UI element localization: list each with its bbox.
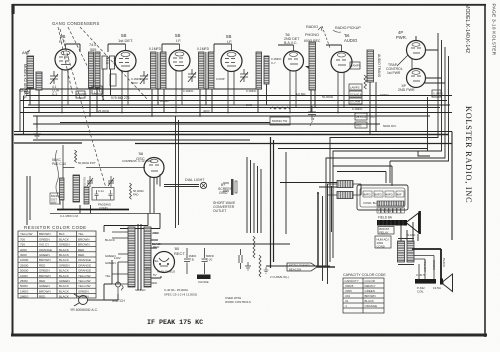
bus wire B+ line y89 [20, 88, 262, 90]
wire corner top-right supply [418, 151, 430, 156]
svg-text:COIL: COIL [417, 290, 424, 294]
svg-text:PHONO: PHONO [305, 33, 319, 37]
svg-text:25,000Ω: 25,000Ω [98, 109, 110, 113]
B plus line from rectifier [152, 243, 290, 245]
wire stage drop if1 [152, 89, 164, 116]
short wave converter outlet J1 [223, 179, 237, 195]
svg-text:SHIELD: SHIELD [135, 288, 145, 292]
svg-text:400V: 400V [203, 109, 210, 113]
svg-text:GREEN: GREEN [59, 263, 70, 267]
phono pickup [333, 26, 361, 32]
svg-text:MODEL.K-140,K-142: MODEL.K-140,K-142 [464, 4, 470, 53]
metal tuning beacon pointer [270, 263, 335, 279]
wire beacon riser [317, 193, 319, 267]
oscillator coil L3b [73, 175, 87, 202]
svg-text:50000: 50000 [20, 269, 29, 273]
tube V7 4P PWR [396, 30, 426, 70]
svg-text:100M: 100M [20, 274, 28, 278]
wire choke connections [280, 183, 361, 196]
svg-text:7 7 0 2 1 8: 7 7 0 2 1 8 [378, 209, 394, 213]
svg-text:PAD: PAD [133, 192, 139, 196]
wire risers to output area [323, 184, 332, 284]
svg-text:RED/GY: RED/GY [365, 284, 376, 288]
speaker terminal strip [377, 208, 404, 213]
field coil FIELD 8A [377, 216, 407, 226]
svg-text:OSC: OSC [136, 156, 145, 161]
svg-text:B-18Ω: B-18Ω [407, 233, 416, 237]
svg-text:GREEN: GREEN [39, 237, 50, 241]
short wave outlet label [213, 201, 236, 213]
svg-text:19.5Ω: 19.5Ω [433, 286, 442, 290]
tube V9 56 OSC [136, 151, 164, 178]
svg-text:8MFD: 8MFD [363, 193, 371, 197]
wire nested bend 7 [337, 172, 386, 184]
volume control R10 [305, 42, 316, 90]
wire nested bend 5 [427, 97, 429, 151]
used with note [225, 296, 251, 304]
resistor cluster ground [264, 267, 269, 273]
svg-text:25000: 25000 [20, 263, 29, 267]
svg-text:BLACK: BLACK [59, 284, 69, 288]
wire nested bend 4 [390, 56, 449, 161]
svg-text:R.F.: R.F. [59, 39, 66, 44]
bus wire AVC line y95.5 [26, 95, 452, 97]
svg-text:BROWN: BROWN [39, 258, 51, 262]
field speaker cone [406, 211, 421, 237]
tube V1 5B RF [55, 34, 76, 112]
svg-text:GREEN: GREEN [105, 261, 116, 265]
svg-text:0.1MFD: 0.1MFD [352, 107, 362, 111]
svg-text:OUTLET: OUTLET [213, 209, 226, 213]
bus wire heater return y112.5 [20, 112, 452, 114]
transformer tap labels right [114, 231, 162, 292]
svg-text:BLACK: BLACK [105, 238, 115, 242]
svg-text:PAD C-10: PAD C-10 [52, 162, 66, 166]
svg-text:.0005: .0005 [345, 289, 353, 293]
wire nested bend 1 [330, 33, 438, 262]
svg-text:SPEC C5-1-2 HI 12,500Ω: SPEC C5-1-2 HI 12,500Ω [164, 293, 198, 297]
svg-text:ORANGE: ORANGE [78, 263, 91, 267]
bus wire y140 left [33, 139, 250, 141]
capacitor C10 8MFD [202, 248, 214, 274]
svg-text:1MEG: 1MEG [20, 289, 29, 293]
tube V8 4P 2nd PWR [398, 69, 426, 93]
svg-text:C-11: C-11 [98, 189, 104, 193]
oscillator coil L3a [60, 178, 65, 200]
tuning drive flexible cable [56, 150, 61, 205]
svg-text:COLOR: COLOR [365, 279, 375, 283]
speaker wires [412, 249, 441, 279]
wire stage drop rf coil [90, 69, 111, 116]
svg-text:SWITCH: SWITCH [112, 299, 125, 303]
bus wire cathode line y105 [28, 104, 450, 106]
resistor color code table text [20, 232, 91, 299]
scattered value labels top band [98, 57, 389, 113]
svg-text:BLACK: BLACK [59, 295, 69, 299]
resistor color code table [18, 225, 96, 298]
tuning condenser VC2 [140, 71, 148, 84]
oscillator grid resistor R12 [75, 150, 96, 165]
bus wire screen line y100.5 [20, 100, 447, 102]
audio interstage transformer T4 [367, 50, 381, 82]
svg-text:RED: RED [78, 248, 85, 252]
svg-text:C.1: C.1 [52, 92, 57, 96]
svg-text:SCALE A: SCALE A [350, 93, 362, 97]
capacity table text [345, 279, 378, 308]
output transformer T6 [398, 239, 415, 265]
svg-text:BLACK: BLACK [59, 269, 69, 273]
wire osc cathode drop [149, 176, 151, 213]
svg-text:YELLOW: YELLOW [78, 284, 91, 288]
svg-text:1.5: 1.5 [94, 91, 98, 95]
wire osc drops [80, 178, 160, 229]
svg-text:ORANGE: ORANGE [78, 258, 91, 262]
osc trimmer VC5 [108, 176, 114, 187]
svg-text:RADIO PICKUP: RADIO PICKUP [335, 26, 361, 30]
svg-text:5V: 5V [153, 273, 157, 277]
bus wire ground bus y116 [33, 115, 430, 117]
transformer lead labels [105, 231, 160, 278]
misc comps mid [308, 106, 316, 126]
svg-text:0.1MFD: 0.1MFD [246, 89, 256, 93]
svg-text:LAMPS: LAMPS [351, 64, 361, 68]
svg-text:RECT.: RECT. [174, 251, 186, 256]
dial light DL [185, 178, 207, 189]
svg-text:IF PEAK 175 KC: IF PEAK 175 KC [147, 319, 203, 327]
wire nested bend 2 [333, 40, 442, 258]
svg-text:YELLOW: YELLOW [78, 279, 91, 283]
boost relay box [378, 227, 394, 235]
svg-text:KOLSTER RADIO, INC: KOLSTER RADIO, INC [464, 106, 473, 203]
svg-text:ORANGE: ORANGE [39, 248, 52, 252]
misc box 500M [270, 117, 290, 125]
svg-text:1st PWR: 1st PWR [387, 71, 401, 75]
grid resistor box R4 [110, 74, 116, 86]
oscillator bottom thin line [50, 213, 160, 215]
svg-text:BROWN: BROWN [39, 274, 51, 278]
svg-text:0.1MFD: 0.1MFD [149, 47, 162, 51]
AC plug P1 [70, 294, 104, 312]
power transformer primary winding [128, 227, 135, 287]
svg-text:RADIO: RADIO [306, 25, 318, 29]
svg-text:GREEN: GREEN [39, 269, 50, 273]
svg-text:B.A.V.C.: B.A.V.C. [284, 41, 297, 45]
capacitor C1 0.1MFD [76, 91, 86, 98]
band switch box [50, 193, 60, 204]
misc resistor mid zigzag [270, 107, 290, 109]
svg-text:YEL: YEL [105, 274, 111, 278]
voice coil bar [415, 279, 436, 284]
svg-text:0.1MFD: 0.1MFD [197, 47, 210, 51]
svg-text:CHOKE: CHOKE [198, 280, 209, 284]
svg-text:1st DET.: 1st DET. [118, 38, 133, 43]
svg-text:500Ω DIV.: 500Ω DIV. [383, 124, 397, 128]
svg-text:GRID: GRID [219, 191, 228, 195]
grid trimmer C4 [240, 69, 248, 82]
svg-text:BLACK: BLACK [59, 289, 69, 293]
svg-text:WAV: WAV [51, 200, 57, 204]
wire plug to switch [104, 260, 118, 300]
svg-text:BLACK: BLACK [442, 258, 446, 267]
svg-text:RED: RED [39, 279, 46, 283]
tube V2 5B 1st DET [115, 33, 136, 112]
svg-text:RELAY: RELAY [380, 230, 389, 234]
on-off switch S2 [112, 278, 125, 303]
svg-text:2 CURVE W(-): 2 CURVE W(-) [270, 275, 289, 279]
svg-text:555: 555 [90, 48, 96, 52]
transformer primary leads [104, 232, 128, 284]
power transformer secondary winding [144, 227, 151, 287]
svg-text:0.5MΩ: 0.5MΩ [380, 93, 389, 97]
capacitor C9 1MFD [184, 248, 196, 274]
gang condenser dashed link 4 (to padder) [60, 29, 106, 188]
svg-text:GREEN: GREEN [365, 289, 375, 293]
padding condenser box [92, 188, 114, 201]
svg-text:I.F.: I.F. [227, 39, 232, 44]
padder label [52, 158, 66, 166]
svg-text:RED: RED [151, 281, 157, 285]
svg-text:BAND: BAND [51, 194, 58, 198]
wire feed y148 [278, 148, 428, 150]
resistor R1 47.5 [102, 56, 109, 69]
wire ground tie bottom maze [266, 265, 330, 267]
trap control label [386, 63, 403, 75]
svg-text:LAMPS: LAMPS [350, 86, 360, 90]
wire bundle right-centre drop [271, 137, 274, 268]
svg-text:0.1MFD: 0.1MFD [77, 92, 87, 96]
RF coupling coil L2 [89, 43, 101, 88]
wire stage drop audio [311, 82, 376, 135]
svg-text:BEACON: BEACON [289, 268, 301, 272]
svg-text:GREEN: GREEN [59, 279, 70, 283]
svg-text:500M: 500M [20, 284, 28, 288]
svg-text:BLK: BLK [59, 232, 65, 236]
resistor R13 50000 PAD [130, 183, 144, 199]
svg-text:700: 700 [20, 237, 25, 241]
speaker leads labels [423, 258, 446, 272]
radio-phono switch S1 [304, 25, 330, 48]
tuning condenser VC1 [50, 71, 58, 84]
wire osc to dial light [157, 174, 199, 187]
ground symbol left margin [33, 128, 41, 138]
svg-text:0.1MFD: 0.1MFD [433, 92, 443, 96]
padding cond label [98, 203, 112, 210]
bus wire main B- y134.5 [14, 134, 449, 136]
svg-text:STORM: STORM [350, 100, 361, 104]
svg-text:50,000Ω: 50,000Ω [322, 95, 334, 99]
ground terminal GND [19, 88, 30, 95]
wire nested bend 3 [326, 47, 445, 266]
svg-text:1/2 MΩ: 1/2 MΩ [296, 92, 306, 96]
speaker wire secondary [414, 256, 434, 280]
svg-text:YELLOW: YELLOW [78, 274, 91, 278]
svg-text:47Ω: 47Ω [356, 124, 362, 128]
svg-text:CAPACITY: CAPACITY [345, 279, 359, 283]
antenna terminal ANT [22, 50, 31, 55]
gang condenser dashed link 2 [68, 27, 104, 100]
svg-text:FIELD 8A: FIELD 8A [378, 216, 393, 220]
svg-text:RED: RED [78, 253, 85, 257]
antenna coil L1 [23, 56, 42, 99]
svg-text:RED: RED [39, 295, 46, 299]
svg-text:5?5 MΩ 275: 5?5 MΩ 275 [111, 96, 130, 100]
svg-text:50,000Ω POT: 50,000Ω POT [78, 161, 96, 165]
osc trimmer VC4 [87, 176, 93, 187]
svg-text:COND: COND [377, 244, 385, 248]
electrolytic condenser block [357, 185, 408, 210]
wire bundle centre drop [247, 157, 261, 233]
wire vertical drop x175 [175, 116, 177, 228]
wire output tubes to right [424, 50, 445, 83]
svg-text:P.C.: P.C. [370, 115, 376, 119]
svg-text:GREEN: GREEN [78, 289, 89, 293]
resistor R2 47.5 [110, 56, 117, 69]
IF transformer T3 [256, 52, 269, 89]
IF transformer T2 [197, 47, 214, 89]
wire bend left-centre [285, 152, 287, 234]
ground symbol tone [245, 262, 251, 270]
svg-text:PWR.: PWR. [396, 35, 407, 40]
svg-text:2.5V: 2.5V [152, 231, 158, 235]
capacity color code table [343, 273, 386, 313]
svg-text:C-7: C-7 [271, 61, 276, 65]
svg-text:BLACK: BLACK [59, 237, 69, 241]
svg-text:ALAN SHIELD: ALAN SHIELD [157, 270, 175, 274]
tone resistor R15 [259, 255, 261, 277]
svg-text:8MFD: 8MFD [374, 193, 382, 197]
bus wire heater line y107.5 [24, 107, 440, 109]
svg-text:BROWN: BROWN [78, 237, 90, 241]
svg-text:ORANGE: ORANGE [365, 304, 378, 308]
tube V4 5B IF2 [221, 34, 242, 112]
svg-text:10000: 10000 [20, 258, 29, 262]
wire grid caps top [66, 36, 417, 52]
svg-text:C-40 60~ 25,000Ω: C-40 60~ 25,000Ω [164, 288, 189, 292]
power transformer T5 core [138, 224, 141, 290]
svg-text:VIO CY: VIO CY [39, 243, 49, 247]
condenser block mounting strip [377, 201, 404, 206]
svg-text:47.5: 47.5 [105, 58, 109, 65]
svg-text:2000: 2000 [20, 248, 27, 252]
svg-text:40Ω: 40Ω [145, 266, 151, 270]
svg-text:COMP: COMP [216, 77, 225, 81]
svg-text:WORK CONTROLS: WORK CONTROLS [225, 300, 251, 304]
svg-text:BROWN: BROWN [365, 294, 376, 298]
wire supply horizontals [104, 226, 161, 279]
bus wire B+ feed y124 [33, 123, 380, 125]
wire bus y122.5 [60, 122, 270, 124]
svg-text:GREEN: GREEN [39, 284, 50, 288]
filter choke CH2 [327, 181, 361, 188]
svg-text:500MΩ TW: 500MΩ TW [272, 119, 287, 123]
tube V6 56 AUDIO [331, 33, 358, 112]
tube V10 80 RECT [154, 246, 186, 274]
svg-text:DIAL LIGHT: DIAL LIGHT [185, 178, 205, 182]
svg-text:BLACK: BLACK [59, 253, 69, 257]
tone capacitor C11 [239, 249, 242, 269]
oscillator section bottom bus [57, 209, 129, 211]
svg-text:RESISTOR COLOR CODE: RESISTOR COLOR CODE [24, 225, 87, 230]
tone resistor R14 [253, 236, 255, 258]
grid comp trimmer C3 [188, 69, 196, 82]
svg-text:C-40.5: C-40.5 [416, 273, 425, 277]
wire vertical drop x178.5 [178, 120, 180, 225]
note under rectifier [164, 288, 198, 297]
bus wire thick left segment y143 [14, 142, 82, 144]
box stack lamps/scale [349, 84, 362, 104]
coupling box C6 [350, 62, 361, 69]
svg-text:28.5 FIL: 28.5 FIL [356, 115, 367, 119]
wire thick feed y143.5 [135, 143, 452, 145]
svg-text:1/2MΩ: 1/2MΩ [160, 99, 169, 103]
wire table feeds [27, 176, 30, 225]
gang condenser dashed link 3 [80, 27, 148, 100]
wire stage drop if2 [200, 89, 212, 116]
svg-text:110V: 110V [114, 256, 121, 260]
svg-text:CAPACITY COLOR CODE: CAPACITY COLOR CODE [343, 273, 386, 277]
gang condenser dashed link 1 [58, 27, 73, 96]
svg-text:YR 400/600Ω A.C.: YR 400/600Ω A.C. [70, 308, 98, 312]
tube V3 5B IF [169, 33, 190, 112]
wire bend4 tail [389, 161, 391, 183]
capacitor C2 comp [92, 86, 102, 95]
svg-text:BROWN: BROWN [78, 243, 90, 247]
misc right small boxes [355, 113, 397, 128]
filter choke CH3 [327, 192, 361, 199]
wire speaker field drops [401, 222, 418, 241]
svg-text:GREEN: GREEN [39, 253, 50, 257]
svg-text:BLACK: BLACK [59, 248, 69, 252]
svg-text:ORANGE: ORANGE [78, 269, 91, 273]
svg-text:.1: .1 [345, 304, 348, 308]
svg-text:BROWN: BROWN [39, 289, 51, 293]
svg-text:.00025: .00025 [345, 284, 354, 288]
svg-text:BLACK: BLACK [365, 299, 375, 303]
svg-text:YELLOW: YELLOW [20, 232, 33, 236]
svg-text:I.F.: I.F. [176, 38, 181, 43]
svg-text:2MEG: 2MEG [20, 295, 29, 299]
wire stage drop if3 [258, 84, 267, 113]
tube V5 56 2nd DET [284, 33, 304, 112]
oscillator coil L3c [84, 187, 89, 204]
svg-text:C-20: C-20 [206, 258, 213, 262]
filter choke CH1 [197, 275, 211, 285]
capacitor C8 0.1MFD [432, 90, 443, 97]
svg-text:2ND PWR: 2ND PWR [398, 88, 415, 92]
IF transformer T1 [149, 47, 166, 89]
svg-text:RED: RED [39, 263, 46, 267]
svg-text:C-1 MFD C.M.: C-1 MFD C.M. [60, 214, 79, 218]
junction dots [61, 112, 339, 194]
svg-text:3000: 3000 [20, 253, 27, 257]
bus wire main B+ y131.5 [14, 132, 452, 241]
svg-text:YEL: YEL [78, 232, 84, 236]
svg-text:400V: 400V [131, 81, 138, 85]
compensating label [122, 159, 153, 163]
svg-text:74.5: 74.5 [89, 43, 96, 47]
B+ screen grid label [218, 183, 233, 195]
bias resistor R11 [364, 75, 367, 89]
svg-text:GREEN: GREEN [59, 243, 70, 247]
oscillator vertical feed [63, 145, 145, 210]
svg-text:750: 750 [20, 243, 25, 247]
svg-text:T.B.: T.B. [190, 258, 195, 262]
svg-text:2MΩ: 2MΩ [246, 103, 253, 107]
svg-text:GANG CONDENSERS: GANG CONDENSERS [52, 21, 100, 26]
svg-text:4MF: 4MF [396, 193, 402, 197]
svg-text:4MFD: 4MFD [385, 193, 393, 197]
loudspeaker SP [440, 274, 453, 292]
